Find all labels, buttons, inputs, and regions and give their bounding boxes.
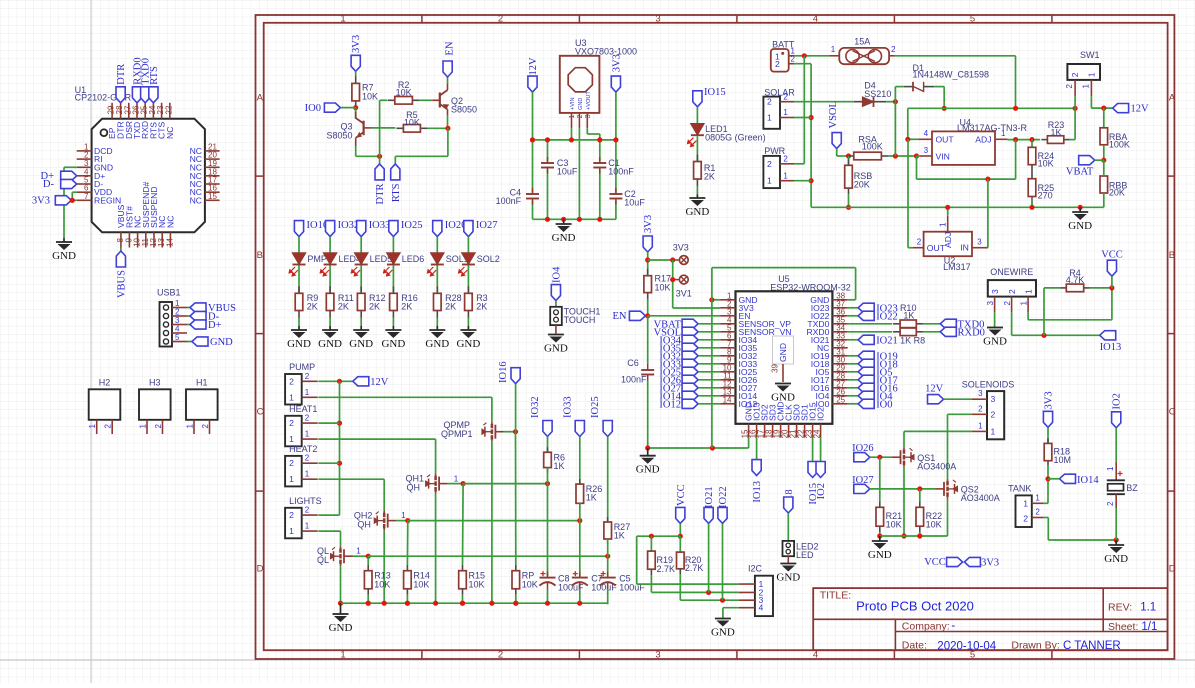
svg-text:2: 2: [891, 45, 896, 54]
svg-text:1: 1: [305, 388, 310, 397]
svg-text:22: 22: [164, 105, 173, 114]
svg-text:1K: 1K: [554, 461, 565, 471]
svg-text:12V: 12V: [528, 57, 539, 76]
svg-text:D-: D-: [43, 179, 55, 190]
svg-text:1K: 1K: [586, 493, 597, 503]
svg-text:3V3: 3V3: [32, 196, 50, 207]
svg-text:3V3: 3V3: [673, 243, 689, 253]
svg-text:IO4: IO4: [551, 266, 562, 283]
svg-text:2: 2: [1065, 83, 1074, 88]
svg-text:5: 5: [175, 333, 180, 342]
svg-text:TITLE:: TITLE:: [820, 589, 852, 601]
svg-text:2: 2: [1106, 501, 1115, 506]
svg-text:IO0: IO0: [876, 399, 892, 410]
svg-text:VIN: VIN: [936, 152, 950, 162]
svg-text:15A: 15A: [854, 36, 870, 46]
svg-text:ADJ: ADJ: [943, 232, 953, 248]
svg-text:2K: 2K: [369, 302, 380, 312]
svg-text:VBUS: VBUS: [116, 270, 127, 298]
svg-text:4: 4: [813, 14, 818, 25]
svg-text:IO15: IO15: [704, 87, 726, 98]
svg-text:GND: GND: [210, 337, 233, 348]
svg-text:1: 1: [978, 421, 983, 430]
svg-text:1K: 1K: [614, 531, 625, 541]
svg-text:3: 3: [977, 238, 982, 247]
svg-text:S8050: S8050: [451, 105, 477, 115]
svg-text:IO22: IO22: [718, 486, 729, 508]
svg-text:PUMP: PUMP: [289, 362, 315, 372]
svg-text:2: 2: [289, 418, 294, 428]
svg-text:IO14: IO14: [1077, 475, 1099, 486]
svg-text:1: 1: [1081, 83, 1090, 88]
svg-text:10K: 10K: [404, 117, 420, 127]
svg-text:3V3: 3V3: [1044, 391, 1055, 409]
svg-text:NC: NC: [165, 127, 175, 139]
svg-text:2: 2: [305, 506, 310, 515]
svg-text:+VOUT: +VOUT: [586, 91, 592, 110]
svg-text:GND: GND: [544, 343, 568, 355]
svg-text:Sheet:: Sheet:: [1108, 621, 1138, 633]
svg-text:SS210: SS210: [864, 89, 891, 99]
svg-text:3: 3: [585, 114, 592, 118]
svg-text:2: 2: [767, 159, 772, 169]
svg-text:2: 2: [305, 454, 310, 463]
svg-text:10K: 10K: [886, 520, 902, 530]
svg-text:2: 2: [1003, 300, 1012, 305]
svg-text:ADJ: ADJ: [975, 135, 991, 145]
svg-text:1: 1: [305, 522, 310, 531]
svg-text:100nF: 100nF: [496, 196, 522, 206]
svg-text:-: -: [951, 620, 955, 632]
svg-text:IO27: IO27: [476, 220, 498, 231]
svg-text:AO3400A: AO3400A: [917, 462, 956, 472]
svg-text:10uF: 10uF: [624, 198, 645, 208]
svg-text:QPMP1: QPMP1: [441, 429, 473, 439]
svg-text:10uF: 10uF: [557, 167, 578, 177]
svg-text:25: 25: [836, 395, 845, 404]
svg-text:3: 3: [924, 146, 929, 155]
svg-text:A: A: [1169, 93, 1176, 104]
svg-text:1N4148W_C81598: 1N4148W_C81598: [913, 70, 990, 80]
svg-text:IO25: IO25: [401, 220, 423, 231]
svg-text:ONEWIRE: ONEWIRE: [990, 267, 1033, 277]
svg-text:2: 2: [1035, 508, 1040, 517]
svg-text:1: 1: [767, 113, 772, 123]
svg-text:2: 2: [154, 423, 163, 428]
svg-text:GND: GND: [983, 336, 1007, 348]
svg-text:IO2: IO2: [816, 483, 827, 499]
svg-text:IO2: IO2: [1112, 393, 1123, 409]
svg-text:HEAT2: HEAT2: [289, 444, 317, 454]
svg-text:GND: GND: [318, 338, 342, 350]
svg-text:24: 24: [812, 429, 821, 438]
svg-text:3: 3: [655, 649, 660, 660]
svg-text:LM317: LM317: [943, 262, 971, 272]
svg-text:1K: 1K: [1050, 127, 1061, 137]
svg-text:VBAT: VBAT: [1066, 167, 1094, 178]
svg-text:GND: GND: [52, 250, 76, 262]
svg-text:2: 2: [104, 423, 113, 428]
svg-text:USB1: USB1: [157, 288, 181, 298]
svg-text:SOL2: SOL2: [477, 254, 500, 264]
svg-text:10K: 10K: [522, 579, 538, 589]
svg-text:IO12: IO12: [659, 399, 681, 410]
svg-text:1K R8: 1K R8: [900, 335, 925, 345]
svg-text:2: 2: [498, 14, 503, 25]
svg-text:2: 2: [201, 423, 210, 428]
svg-text:2: 2: [991, 410, 996, 420]
svg-text:1: 1: [340, 14, 345, 25]
svg-text:TOUCH: TOUCH: [564, 315, 596, 325]
svg-text:1K: 1K: [903, 310, 914, 320]
svg-text:10K: 10K: [926, 520, 942, 530]
svg-text:EN: EN: [444, 41, 455, 55]
svg-text:2: 2: [1070, 72, 1080, 77]
svg-text:7: 7: [84, 192, 89, 201]
svg-text:1: 1: [139, 423, 148, 428]
svg-text:RTS: RTS: [149, 66, 160, 85]
svg-text:RTS: RTS: [391, 183, 402, 202]
svg-text:IO13: IO13: [1100, 342, 1122, 353]
svg-text:PMP: PMP: [307, 254, 327, 264]
svg-text:12V: 12V: [1131, 104, 1150, 115]
svg-text:2: 2: [783, 154, 788, 163]
svg-text:LED: LED: [796, 550, 814, 560]
svg-text:2: 2: [305, 414, 310, 423]
svg-text:IO2: IO2: [816, 407, 826, 421]
svg-text:IO25: IO25: [590, 396, 601, 418]
svg-text:10K: 10K: [655, 283, 671, 293]
svg-text:SOLENOIDS: SOLENOIDS: [962, 380, 1015, 390]
svg-text:HEAT1: HEAT1: [289, 404, 317, 414]
svg-text:10M: 10M: [1054, 455, 1072, 465]
svg-text:GND: GND: [685, 206, 709, 218]
svg-text:GND: GND: [329, 622, 353, 634]
svg-text:Proto PCB Oct 2020: Proto PCB Oct 2020: [856, 599, 974, 614]
svg-text:2: 2: [289, 376, 294, 386]
svg-text:C: C: [1169, 407, 1176, 418]
svg-text:1: 1: [289, 434, 294, 444]
svg-text:BZ: BZ: [1126, 483, 1138, 493]
svg-text:14: 14: [723, 395, 732, 404]
svg-text:IO21: IO21: [876, 335, 898, 346]
svg-text:C: C: [257, 407, 264, 418]
svg-text:270: 270: [1038, 191, 1053, 201]
svg-text:4: 4: [924, 129, 929, 138]
svg-text:D+: D+: [208, 320, 222, 331]
svg-text:1: 1: [340, 649, 345, 660]
svg-text:GND: GND: [552, 232, 576, 244]
svg-text:3V3: 3V3: [981, 558, 999, 569]
svg-text:REGIN: REGIN: [94, 195, 121, 205]
svg-text:3: 3: [655, 14, 660, 25]
svg-text:GND: GND: [381, 338, 405, 350]
svg-text:100K: 100K: [1109, 139, 1130, 149]
svg-text:1: 1: [569, 114, 576, 118]
svg-text:1: 1: [1086, 72, 1096, 77]
svg-text:QH: QH: [407, 482, 421, 492]
svg-text:Date:: Date:: [902, 640, 927, 652]
svg-text:1: 1: [305, 430, 310, 439]
svg-text:GND: GND: [776, 572, 800, 584]
svg-text:SW1: SW1: [1080, 50, 1100, 60]
svg-text:GND: GND: [868, 549, 892, 561]
svg-text:IO0: IO0: [305, 103, 321, 114]
svg-text:2: 2: [783, 92, 788, 101]
svg-text:1: 1: [305, 470, 310, 479]
svg-text:15: 15: [208, 192, 217, 201]
svg-text:2: 2: [917, 238, 922, 247]
svg-text:14: 14: [165, 237, 174, 246]
svg-text:3V3: 3V3: [643, 215, 654, 233]
svg-text:D: D: [1169, 564, 1176, 575]
svg-text:2K: 2K: [401, 302, 412, 312]
svg-text:2K: 2K: [338, 302, 349, 312]
svg-text:Drawn By:: Drawn By:: [1011, 640, 1059, 652]
svg-text:AO3400A: AO3400A: [961, 493, 1000, 503]
svg-text:1: 1: [454, 475, 459, 484]
svg-text:GND: GND: [287, 338, 311, 350]
svg-text:GND: GND: [578, 98, 584, 110]
svg-text:1: 1: [88, 423, 97, 428]
svg-text:NC: NC: [190, 195, 202, 205]
svg-text:3: 3: [978, 389, 983, 398]
svg-text:S8050: S8050: [326, 131, 352, 141]
svg-text:0805G (Green): 0805G (Green): [705, 133, 766, 143]
svg-text:100K: 100K: [862, 142, 883, 152]
svg-text:20K: 20K: [854, 180, 870, 190]
svg-text:1: 1: [1001, 129, 1006, 138]
svg-text:1: 1: [831, 45, 836, 54]
svg-text:QL: QL: [317, 555, 329, 565]
svg-text:3: 3: [986, 300, 995, 305]
svg-text:1: 1: [767, 176, 772, 186]
svg-text:GND: GND: [349, 338, 373, 350]
svg-text:IO13: IO13: [752, 481, 763, 503]
svg-text:1: 1: [289, 392, 294, 402]
svg-text:10K: 10K: [1038, 159, 1054, 169]
svg-text:10K: 10K: [362, 91, 378, 101]
svg-text:GND: GND: [456, 338, 480, 350]
svg-text:2: 2: [775, 59, 780, 69]
svg-text:IO21: IO21: [704, 486, 715, 508]
svg-text:IN: IN: [960, 243, 969, 253]
svg-text:2K: 2K: [704, 172, 715, 182]
svg-text:2: 2: [1007, 289, 1017, 294]
svg-text:1: 1: [186, 423, 195, 428]
svg-text:100nF: 100nF: [608, 167, 634, 177]
svg-text:H1: H1: [196, 377, 208, 387]
svg-text:OUT: OUT: [936, 135, 955, 145]
svg-text:1.1: 1.1: [1140, 601, 1156, 613]
svg-text:IO33: IO33: [562, 396, 573, 418]
svg-text:H3: H3: [149, 377, 161, 387]
svg-text:1/1: 1/1: [1141, 621, 1157, 633]
svg-text:2: 2: [289, 458, 294, 468]
svg-text:2.7K: 2.7K: [685, 563, 704, 573]
svg-text:Company:: Company:: [902, 620, 950, 632]
svg-text:C TANNER: C TANNER: [1063, 640, 1121, 652]
svg-text:GND: GND: [778, 343, 788, 362]
svg-text:1: 1: [1019, 300, 1028, 305]
svg-text:GND: GND: [636, 464, 660, 476]
svg-text:2K: 2K: [445, 302, 456, 312]
svg-text:GND: GND: [1104, 553, 1128, 565]
svg-text:3V3: 3V3: [351, 35, 362, 53]
svg-text:1: 1: [289, 474, 294, 484]
svg-text:GND: GND: [1068, 220, 1092, 232]
svg-text:H2: H2: [99, 377, 111, 387]
svg-text:1: 1: [783, 171, 788, 180]
svg-text:1: 1: [783, 108, 788, 117]
svg-text:2: 2: [498, 649, 503, 660]
svg-text:NC: NC: [165, 216, 175, 228]
svg-text:B: B: [257, 250, 263, 261]
svg-text:10K: 10K: [374, 579, 390, 589]
svg-text:GND: GND: [425, 338, 449, 350]
svg-text:2: 2: [577, 114, 584, 118]
svg-text:VSOL: VSOL: [828, 101, 839, 128]
svg-text:IO33: IO33: [369, 220, 391, 231]
svg-text:2: 2: [289, 510, 294, 520]
svg-text:IO22: IO22: [876, 311, 898, 322]
svg-text:12V: 12V: [925, 384, 944, 395]
svg-text:+VIN: +VIN: [570, 97, 576, 110]
svg-text:1: 1: [1023, 289, 1033, 294]
svg-text:2: 2: [305, 372, 310, 381]
svg-text:2020-10-04: 2020-10-04: [937, 640, 996, 652]
svg-text:LED6: LED6: [402, 254, 425, 264]
svg-text:GND: GND: [711, 627, 735, 639]
svg-text:10K: 10K: [469, 579, 485, 589]
svg-text:3V1: 3V1: [676, 289, 692, 299]
svg-text:IO32: IO32: [530, 396, 541, 418]
svg-text:3: 3: [991, 394, 996, 404]
svg-text:REV:: REV:: [1108, 601, 1132, 613]
svg-text:VCC: VCC: [1101, 250, 1123, 261]
svg-text:DTR: DTR: [116, 64, 127, 85]
svg-text:2.7K: 2.7K: [657, 564, 676, 574]
svg-text:2: 2: [1023, 514, 1028, 524]
svg-text:10K: 10K: [413, 579, 429, 589]
svg-text:2K: 2K: [476, 302, 487, 312]
svg-text:1: 1: [289, 526, 294, 536]
svg-text:1: 1: [938, 222, 947, 227]
svg-text:3: 3: [990, 289, 1000, 294]
svg-text:C6: C6: [627, 358, 639, 368]
svg-text:4.7K: 4.7K: [1066, 275, 1085, 285]
svg-text:TANK: TANK: [1008, 484, 1031, 494]
svg-text:A: A: [257, 93, 264, 104]
svg-text:DTR: DTR: [375, 184, 386, 205]
svg-text:2K: 2K: [307, 302, 318, 312]
svg-text:LIGHTS: LIGHTS: [289, 496, 322, 506]
svg-text:1: 1: [356, 547, 361, 556]
svg-text:4: 4: [759, 603, 764, 613]
svg-text:1: 1: [1023, 499, 1028, 509]
svg-text:VCC: VCC: [676, 484, 687, 506]
svg-text:B: B: [1169, 250, 1175, 261]
svg-text:3V3: 3V3: [611, 54, 622, 72]
svg-text:1: 1: [1106, 466, 1115, 471]
svg-text:10K: 10K: [396, 87, 412, 97]
svg-text:2: 2: [978, 404, 983, 413]
svg-text:I2C: I2C: [748, 564, 763, 574]
svg-text:QH: QH: [357, 519, 371, 529]
svg-text:EN: EN: [613, 311, 627, 322]
svg-text:12V: 12V: [370, 377, 389, 388]
svg-text:5: 5: [970, 14, 975, 25]
svg-text:RXD0: RXD0: [958, 327, 985, 338]
svg-text:IO16: IO16: [498, 361, 509, 383]
svg-text:39: 39: [771, 363, 780, 372]
svg-text:2: 2: [767, 97, 772, 107]
svg-text:100nF: 100nF: [621, 375, 647, 385]
svg-text:VCC: VCC: [924, 557, 946, 568]
svg-text:1: 1: [1035, 493, 1040, 502]
svg-text:1: 1: [991, 427, 996, 437]
svg-text:GND: GND: [771, 392, 795, 404]
svg-text:20K: 20K: [1109, 188, 1125, 198]
svg-text:D: D: [257, 564, 264, 575]
svg-text:1: 1: [401, 511, 406, 520]
